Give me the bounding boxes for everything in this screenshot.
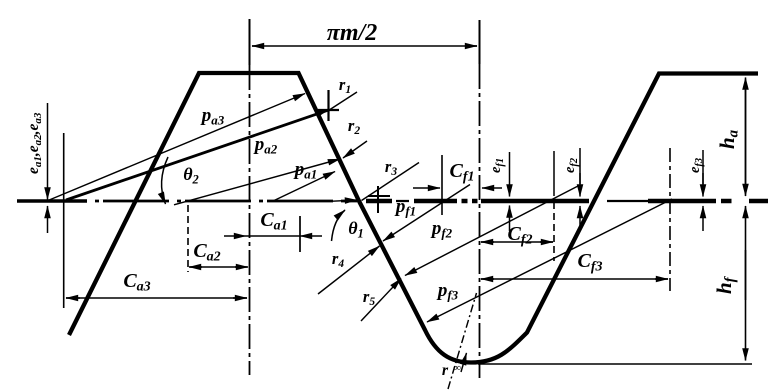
angle theta1 arc — [332, 210, 346, 241]
C_f2 right extension — [553, 151, 555, 196]
C_a2 left extension — [187, 205, 189, 272]
C_f3 right extension — [669, 148, 671, 291]
svg-text:r3: r3 — [385, 157, 397, 178]
dimension C_f3 — [481, 278, 668, 280]
C_a1 right extension — [299, 216, 301, 252]
dimension C_a3 — [66, 297, 247, 299]
pitch line thick segments — [366, 199, 768, 204]
svg-text:θ2: θ2 — [183, 164, 199, 187]
cross mark r1 point — [318, 90, 339, 121]
svg-text:ef3: ef3 — [687, 158, 705, 173]
svg-text:r4: r4 — [332, 249, 344, 270]
svg-text:Cf3: Cf3 — [577, 250, 602, 275]
measuring line p_a1 — [272, 172, 335, 202]
svg-text:hf: hf — [712, 275, 739, 294]
measuring line p_f3 — [427, 199, 672, 322]
svg-text:ea1,ea2,ea3: ea1,ea2,ea3 — [25, 112, 44, 174]
svg-text:Cf1: Cf1 — [449, 160, 474, 185]
pitch line thin segment — [396, 200, 648, 202]
r3 leader — [362, 163, 420, 201]
root bottom reference line — [478, 363, 752, 365]
thick measuring line p_a3 — [66, 110, 328, 200]
dimension C_f2 — [481, 241, 553, 243]
measuring line p_f2 — [405, 186, 578, 276]
svg-text:Ca2: Ca2 — [193, 240, 220, 265]
measuring line p_f1 — [383, 185, 470, 242]
e_a lower arrow — [47, 206, 49, 233]
tooth profile outline — [69, 73, 758, 363]
svg-text:pa3: pa3 — [200, 105, 225, 128]
r2 leader — [343, 141, 367, 158]
svg-text:r1: r1 — [339, 75, 351, 96]
r1 leader — [330, 92, 357, 110]
measuring line p_a2 — [174, 159, 340, 205]
e_f3 arrows and label — [702, 150, 704, 184]
svg-text:ha: ha — [715, 129, 742, 149]
r5 leader — [361, 279, 401, 322]
svg-text:ef2: ef2 — [562, 157, 580, 173]
e_f2 arrows and label — [579, 148, 581, 184]
centerline left tooth — [249, 19, 251, 65]
cross mark r3 point — [368, 186, 390, 213]
dimension h_a — [745, 78, 747, 193]
dimension C_a2 — [190, 266, 247, 268]
svg-text:∞: ∞ — [453, 362, 461, 374]
pitch line left dash-dot — [17, 199, 87, 203]
dimension C_a1 (outside arrows) — [246, 235, 300, 237]
dimension C_f1 (outside arrows) — [413, 187, 440, 189]
angle theta2 arc — [162, 157, 168, 204]
dimension pi m/2 — [252, 45, 477, 47]
r4 leader — [318, 246, 380, 294]
svg-text:πm/2: πm/2 — [327, 20, 377, 46]
centerline root valley — [479, 20, 481, 64]
e_a upper arrow — [47, 103, 49, 200]
svg-text:pa2: pa2 — [253, 134, 278, 157]
svg-text:pa1: pa1 — [293, 159, 318, 182]
C_f1 left extension — [441, 155, 443, 215]
dimension h_f — [745, 206, 747, 300]
svg-text:ef1: ef1 — [488, 158, 506, 173]
svg-text:pf2: pf2 — [430, 218, 453, 241]
svg-text:Ca1: Ca1 — [260, 209, 287, 234]
svg-text:r5: r5 — [363, 287, 375, 308]
root fillet radius indicator r_inf — [448, 293, 477, 389]
svg-text:pf3: pf3 — [436, 280, 459, 303]
e_f1 arrows and label — [509, 152, 511, 197]
small horizontal arrow at pitch crossing — [330, 200, 357, 201]
svg-text:r: r — [442, 362, 449, 379]
svg-text:Cf2: Cf2 — [507, 223, 532, 248]
svg-text:r2: r2 — [348, 116, 360, 137]
thin fan line to flank — [48, 94, 305, 201]
svg-text:θ1: θ1 — [348, 218, 364, 241]
svg-text:Ca3: Ca3 — [123, 270, 150, 295]
svg-text:pf1: pf1 — [394, 196, 416, 219]
vertical extension at fan origin — [63, 133, 65, 308]
